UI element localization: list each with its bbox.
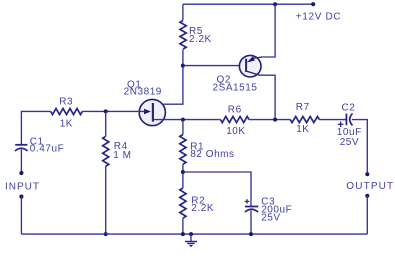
node top-rail / Q2 emitter junction (273, 2, 277, 6)
resistor R4 (103, 136, 109, 166)
label R4 value 1 M (113, 141, 131, 161)
svg-text:2SA1515: 2SA1515 (213, 82, 258, 93)
label +12V DC supply (296, 11, 341, 22)
label R3 value 1K (59, 96, 73, 129)
wire C2 to OUTPUT terminal (352, 120, 368, 175)
wire Q1 source to R6 (153, 119, 221, 121)
resistor R2 (180, 188, 186, 218)
resistor R7 (290, 117, 319, 123)
node Q1 source / R1 / R6 junction (181, 118, 185, 122)
node OUTPUT terminal bottom (365, 194, 369, 198)
label C2 10uF 25V (337, 103, 362, 149)
wire R4 bottom lead (105, 166, 107, 234)
svg-text:+12V DC: +12V DC (296, 11, 341, 22)
svg-text:25V: 25V (340, 137, 359, 148)
svg-text:1K: 1K (296, 124, 309, 135)
wire INPUT to ground rail (20, 197, 22, 235)
wire R5 top lead (182, 4, 184, 20)
label C1 0.47uF (30, 137, 64, 155)
label R5 value 2.2K (189, 26, 212, 45)
svg-text:OUTPUT: OUTPUT (346, 181, 394, 192)
node Q2 collector / R6 / R7 junction (273, 118, 277, 122)
wire R3 to Q1 gate (82, 110, 145, 112)
label Q1 2N3819 (124, 80, 162, 98)
svg-text:2.2K: 2.2K (191, 203, 214, 214)
svg-text:1 M: 1 M (113, 150, 131, 161)
wire R6 to R7 (249, 119, 290, 121)
wire C3 bottom lead (250, 210, 252, 234)
ground (185, 234, 197, 247)
svg-text:10K: 10K (226, 126, 245, 137)
node INPUT terminal top (19, 171, 23, 175)
svg-text:2N3819: 2N3819 (124, 86, 162, 97)
node R3 / R4 junction (104, 109, 108, 113)
resistor R1 (180, 135, 186, 165)
wire Q2 base (183, 65, 247, 67)
node R5 / Q2 base junction (181, 64, 185, 68)
label OUTPUT (346, 181, 394, 192)
label R2 value 2.2K (191, 196, 214, 214)
transistor Q1 (2N3819 JFET) (139, 99, 165, 125)
label INPUT (5, 182, 40, 193)
wire R1 to R2 (182, 164, 184, 188)
node C3 / ground rail junction (249, 232, 253, 236)
capacitor C3 (polarized, + mark) (245, 199, 258, 212)
node +12V terminal (311, 2, 315, 6)
svg-text:R3: R3 (59, 96, 73, 107)
resistor R5 (180, 21, 186, 50)
wire ground rail (bottom) (21, 233, 367, 235)
svg-text:2.2K: 2.2K (189, 34, 212, 45)
wire R4 top lead (105, 111, 107, 136)
wire junction to C3 top (183, 172, 251, 207)
wire OUTPUT to ground rail (366, 196, 368, 234)
wire +12V supply rail (183, 3, 313, 5)
svg-text:R7: R7 (296, 102, 310, 113)
resistor R6 (221, 117, 250, 123)
node INPUT terminal bottom (19, 195, 23, 199)
wire C1 top to R3 (21, 111, 50, 144)
svg-text:82 Ohms: 82 Ohms (190, 149, 234, 160)
label C3 200uF 25V (261, 197, 292, 224)
capacitor C1 (15, 145, 28, 151)
label R7 value 1K (296, 102, 310, 135)
node R2 / ground rail junction (181, 232, 185, 236)
svg-text:1K: 1K (60, 118, 73, 129)
wire R1 top lead (182, 120, 184, 135)
svg-text:C2: C2 (342, 103, 356, 114)
wire C1 bottom to INPUT terminal (20, 149, 22, 173)
wire R2 bottom lead (182, 218, 184, 234)
capacitor C2 (polarized, + mark) (338, 113, 353, 127)
svg-text:R6: R6 (228, 105, 242, 116)
svg-text:25V: 25V (261, 213, 280, 224)
transistor Q2 (2SA1515 PNP) (239, 55, 262, 77)
label Q2 2SA1515 (213, 75, 258, 94)
label R6 value 10K (226, 105, 245, 137)
node R1 / R2 / C3 junction (181, 170, 185, 174)
node R4 / ground rail junction (104, 232, 108, 236)
wire Q2 emitter to +12V rail (261, 4, 275, 57)
svg-text:INPUT: INPUT (5, 182, 40, 193)
label R1 value 82 Ohms (190, 142, 234, 160)
node ground stub junction (189, 232, 193, 236)
resistor R3 (51, 108, 83, 114)
wire R7 to C2 (319, 119, 346, 121)
node OUTPUT terminal top (365, 172, 369, 176)
wire R5 bottom lead to Q1 drain (153, 50, 183, 105)
svg-text:0.47uF: 0.47uF (30, 143, 64, 154)
wire Q2 collector to R6/R7 node (260, 75, 276, 119)
